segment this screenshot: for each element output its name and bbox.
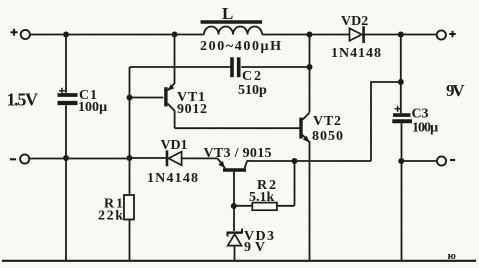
wire VD1 anode side: [130, 157, 167, 159]
node VT1 base tap: [127, 95, 133, 101]
label - (input polarity): [10, 158, 16, 160]
node C3 bottom output tap: [398, 158, 404, 164]
wire C2 left: [130, 66, 231, 68]
capacitor C2: [232, 57, 239, 77]
wire R2 right vertical: [294, 161, 296, 206]
wire VT1 collector vertical: [174, 110, 176, 128]
transistor VT1: [166, 84, 175, 111]
diode VD1: [167, 150, 182, 166]
wire VT2 emitter vertical: [309, 141, 311, 261]
wire C1 branch upper: [65, 35, 67, 93]
svg-text:100μ: 100μ: [412, 121, 438, 136]
svg-text:L: L: [222, 4, 233, 23]
wire VT1 base: [130, 97, 164, 99]
wire R2 right lead: [277, 205, 295, 207]
zener diode VD3: [228, 229, 243, 246]
resistor R1: [124, 195, 134, 220]
wire jog to +9V node: [371, 82, 401, 161]
wire bottom rail: [2, 260, 476, 262]
node negative rail VD1 tap: [127, 155, 133, 161]
node top rail VT2 tap: [307, 32, 313, 38]
svg-text:1.5V: 1.5V: [7, 90, 39, 110]
capacitor C1: [58, 88, 78, 103]
wire left branch vertical upper: [129, 67, 131, 195]
inductor L core bar: [201, 20, 262, 24]
wire C1 branch lower: [65, 105, 67, 260]
diode VD2: [350, 26, 364, 43]
wire C3 branch lower: [401, 123, 403, 260]
svg-text:1N4148: 1N4148: [331, 46, 381, 61]
node C3 top tap: [398, 79, 404, 85]
terminal - output: [437, 156, 446, 165]
wire VT1 emitter vertical: [174, 35, 176, 85]
wire VT3 base lead: [233, 172, 235, 206]
node top rail output tap: [398, 32, 404, 38]
capacitor C3: [392, 106, 412, 121]
svg-text:VT2: VT2: [313, 114, 341, 129]
label + (input polarity): [11, 29, 18, 36]
svg-text:5.1k: 5.1k: [249, 190, 275, 205]
node top rail VT1 tap: [172, 32, 178, 38]
wire C3 branch upper: [400, 35, 402, 114]
wire VT1 collector to VT2 base: [175, 127, 300, 129]
resistor R2: [252, 203, 277, 211]
terminal - input: [20, 154, 29, 163]
wire VT3 collector to jog: [247, 160, 371, 162]
wire R2 left lead: [233, 205, 252, 207]
svg-text:9V: 9V: [244, 240, 265, 255]
wire left branch vertical lower: [129, 220, 131, 261]
transistor VT2: [301, 113, 310, 143]
terminal + output: [437, 30, 446, 39]
node negative rail C1 tap: [63, 155, 69, 161]
node VT3 collector R2 tap: [292, 158, 298, 164]
wire VT2 collector vertical: [309, 35, 311, 113]
svg-text:100μ: 100μ: [78, 100, 107, 115]
wire VD3 bottom lead: [234, 246, 236, 261]
wire negative input rail: [29, 158, 129, 160]
svg-text:VD1: VD1: [161, 138, 188, 153]
inductor L coil: [204, 27, 262, 35]
svg-text:8050: 8050: [312, 129, 343, 144]
svg-text:9V: 9V: [446, 81, 465, 100]
wire negative output: [401, 160, 437, 162]
svg-text:VD2: VD2: [341, 14, 368, 29]
node C2 right: [307, 64, 313, 70]
svg-text:C3: C3: [412, 107, 429, 122]
wire top rail middle: [262, 34, 350, 36]
svg-text:510p: 510p: [238, 83, 267, 98]
wire C2 right: [241, 66, 309, 68]
node top rail C1 tap: [63, 32, 69, 38]
svg-text:9012: 9012: [177, 102, 207, 117]
wire top rail left: [30, 34, 204, 36]
transistor VT3: [218, 158, 248, 170]
svg-text:C2: C2: [242, 69, 261, 84]
wire top rail right: [365, 34, 437, 36]
svg-text:VT3 / 9015: VT3 / 9015: [204, 146, 272, 161]
label + (output polarity): [449, 31, 456, 38]
terminal + input: [21, 30, 30, 39]
node VT3 base R2 VD3 tap: [231, 203, 237, 209]
label - (output polarity): [450, 159, 455, 161]
wire VD3 top lead: [233, 206, 235, 231]
svg-text:ю: ю: [448, 250, 456, 262]
svg-text:22k: 22k: [98, 209, 123, 224]
wire VD1 to VT3 emitter: [182, 157, 218, 159]
svg-text:1N4148: 1N4148: [147, 171, 198, 186]
